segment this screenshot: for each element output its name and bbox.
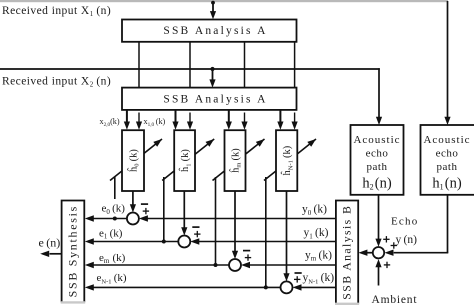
node: tap junction on e1 line: [162, 240, 166, 244]
sign plus for summing node 3: [245, 257, 251, 259]
svg-text:Received input X2​ (n): Received input X2​ (n): [2, 75, 111, 88]
svg-text:e1​ (k): e1​ (k): [99, 227, 123, 240]
wire: x1 bus to acoustic echo path h1: [447, 1, 449, 118]
svg-text:h2​ (n): h2​ (n): [362, 175, 392, 191]
summing node 4: [281, 281, 293, 293]
label: e0(k): [99, 200, 125, 215]
svg-text:e (n): e (n): [39, 235, 61, 249]
block: adaptive filter h0(k): [122, 130, 144, 191]
block U1: SSB Analysis A (upper): [122, 20, 297, 42]
sign plus for summing node 2: [194, 233, 200, 235]
sign plus for summing node 4: [294, 278, 300, 280]
sign minus for summing node 2: [192, 226, 199, 228]
svg-text:y1​ (k): y1​ (k): [304, 227, 329, 240]
svg-text:eN-1​ (k): eN-1​ (k): [97, 272, 127, 285]
node: tap junction on e0 line: [113, 217, 117, 221]
sign minus for summing node 1: [141, 203, 148, 205]
svg-text:path: path: [367, 161, 388, 173]
svg-text:ĥ1​ (k): ĥ1​ (k): [178, 149, 192, 172]
svg-text:e0​ (k): e0​ (k): [102, 203, 126, 216]
wire: echo path h2 output into adder: [378, 195, 380, 240]
wire: echo path h1 output into adder: [447, 195, 449, 253]
sign plus for summing node 1: [143, 210, 149, 212]
node: tap junction on eN-1 line: [264, 285, 268, 289]
block: adaptive filter hm(k): [225, 130, 246, 191]
summing node 3: [229, 259, 241, 271]
sign plus: bottom input of adder: [384, 264, 390, 266]
wires: y_k lines from SSB Analysis B to summing nodes: [147, 218, 336, 220]
wire: x2 subband arrows into adaptive filters: [126, 110, 128, 123]
sign minus for summing node 3: [243, 250, 250, 252]
sign minus for summing node 4: [295, 272, 302, 274]
svg-text:SSB Analysis A: SSB Analysis A: [163, 25, 267, 37]
wires: e_k outputs to SSB Synthesis: [92, 218, 127, 220]
sign plus: right input of adder: [391, 245, 397, 247]
svg-text:path: path: [437, 161, 458, 173]
wire: x1 bus down into SSB Analysis A box U1: [212, 2, 214, 13]
node: junction on x1 bus feeding SSB Analysis A (top): [211, 1, 215, 5]
svg-text:yN-1​ (k): yN-1​ (k): [303, 272, 335, 285]
svg-text:Acoustic: Acoustic: [423, 134, 470, 146]
summing node 2: [178, 236, 190, 248]
block: acoustic echo path h1(n): [421, 125, 474, 195]
adder node: echo + ambient: [373, 247, 384, 258]
wire: subband connectors U1 to U2 (4 lines): [138, 42, 140, 88]
svg-text:Echo: Echo: [391, 215, 418, 227]
svg-text:y0​ (k): y0​ (k): [302, 204, 327, 217]
svg-text:h1​ (n): h1​ (n): [432, 175, 462, 191]
svg-text:SSB Synthesis: SSB Synthesis: [66, 205, 80, 297]
svg-text:Received input X1​ (n): Received input X1​ (n): [2, 5, 111, 18]
block: acoustic echo path h2(n): [351, 125, 404, 195]
svg-text:ĥm​ (k): ĥm​ (k): [229, 148, 243, 173]
wire: x1 subband arrows into adaptive filters: [138, 113, 140, 124]
svg-text:ĥ0​ (k): ĥ0​ (k): [127, 149, 141, 172]
svg-text:SSB Analysis A: SSB Analysis A: [163, 93, 267, 105]
block: SSB Synthesis: [62, 201, 85, 303]
block: SSB Analysis B: [336, 201, 358, 304]
wire: adder output into SSB Analysis B: [367, 252, 372, 254]
svg-text:y (n): y (n): [396, 234, 418, 246]
wire: ambient noise into adder: [378, 266, 380, 286]
wire: filter outputs down to summing nodes: [132, 191, 134, 206]
sign plus: top input of adder: [383, 238, 389, 240]
node: tap junction on em line: [214, 263, 218, 267]
wire: received input x2(n) bus: [0, 68, 380, 70]
svg-text:ym​ (k): ym​ (k): [305, 249, 332, 262]
wire: e(n) output arrow: [50, 253, 62, 255]
svg-text:echo: echo: [436, 148, 459, 160]
wire: received input x1(n) bus (grey, top edge): [0, 0, 448, 2]
svg-text:echo: echo: [366, 148, 389, 160]
svg-text:ĥN-1​ (k): ĥN-1​ (k): [280, 145, 294, 175]
wire: x2 bus down into SSB Analysis A box U2: [212, 69, 214, 81]
wire: adaptation arrows through filters: [110, 139, 162, 181]
block: adaptive filter h1(k): [174, 130, 195, 191]
wire: x2 bus to acoustic echo path h2: [378, 68, 380, 118]
node: junction on x2 bus feeding SSB Analysis A (lower): [210, 67, 214, 71]
wire: error taps up to filters: [114, 177, 116, 199]
svg-text:em​ (k): em​ (k): [99, 252, 126, 265]
block: adaptive filter hN-1(k): [276, 130, 297, 191]
svg-text:Ambient: Ambient: [372, 294, 418, 305]
summing node 1: [127, 213, 139, 225]
svg-text:Acoustic: Acoustic: [353, 134, 400, 146]
svg-text:SSB Analysis B: SSB Analysis B: [340, 205, 354, 300]
block U2: SSB Analysis A (lower): [122, 88, 297, 110]
